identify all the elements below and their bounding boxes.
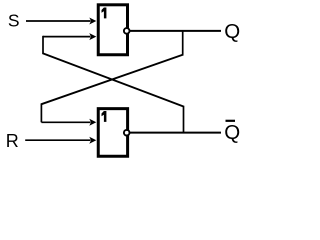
arrowhead feedback into U2 pin 1 <box>89 119 96 126</box>
wire vertical at x=43 (U1 pin 2 corner) <box>42 36 44 53</box>
wire feedback to U2 pin 1 (horizontal) <box>41 121 90 123</box>
wire vertical at x=41.4 (U2 pin 2 corner) <box>40 103 42 122</box>
gate U2 (IEC "1" gate, bottom) <box>98 109 127 157</box>
svg-text:R: R <box>6 131 19 151</box>
wire Q output <box>129 30 221 32</box>
bubble at U2 output <box>124 130 130 136</box>
wire Qbar output <box>129 132 221 134</box>
wire feedback to U1 pin 2 (horizontal) <box>43 36 91 38</box>
label 1 of U2 <box>102 111 107 122</box>
arrowhead R into U2 pin 2 <box>89 137 96 144</box>
arrowhead feedback into U1 pin 2 <box>89 33 96 40</box>
svg-text:Q: Q <box>224 20 240 43</box>
svg-text:Q: Q <box>224 121 240 144</box>
svg-text:S: S <box>8 10 20 30</box>
wire R input <box>25 139 90 141</box>
label 1 of U1 <box>102 8 107 19</box>
wire diagonal A (U1 pin 2 down to Qbar net) <box>42 53 183 106</box>
wire S input <box>26 20 91 22</box>
arrowhead S into U1 pin 1 <box>89 18 96 25</box>
wire stub junction at x=182.7 down from Q wire <box>182 31 184 55</box>
wire diagonal B (Q net down-left to U2 pin 2) <box>41 55 183 105</box>
overbar of Qbar <box>226 120 236 122</box>
gate U1 (IEC "1" gate, top) <box>98 5 127 55</box>
bubble at U1 output <box>124 28 130 34</box>
wire vertical at x=183.5 down to Qbar wire <box>183 106 185 133</box>
